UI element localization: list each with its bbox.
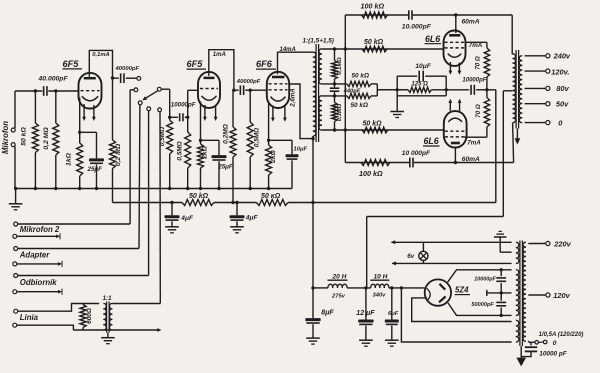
- svg-text:1:(1,5+1,5): 1:(1,5+1,5): [303, 37, 334, 44]
- wire heater line bottom: [392, 261, 512, 265]
- label 0,1MΩ up: [337, 57, 343, 75]
- svg-text:220v: 220v: [553, 240, 571, 249]
- V3 heater legs: [271, 106, 287, 122]
- wire B+ rail stages: [113, 202, 496, 204]
- svg-text:0,5MΩ: 0,5MΩ: [177, 141, 184, 160]
- resistor 2kΩ V3 cathode: [266, 145, 272, 189]
- svg-text:50 kΩ: 50 kΩ: [352, 72, 369, 79]
- resistor 600Ω line: [80, 304, 86, 331]
- svg-text:50000pF: 50000pF: [471, 302, 494, 308]
- choke 10H: [370, 273, 389, 298]
- V2 cathode arc: [202, 96, 217, 101]
- resistor 1kΩ V1 cathode: [77, 132, 83, 188]
- svg-text:50 kΩ: 50 kΩ: [364, 39, 384, 46]
- resistor 100kΩ bottom: [359, 160, 390, 179]
- V1 cathode arc: [82, 96, 98, 101]
- terminal Mikrofon2 a: [14, 222, 130, 226]
- T2 tap 80v: [525, 84, 570, 93]
- svg-text:6μF: 6μF: [388, 311, 399, 317]
- T3 primary winding: [523, 242, 526, 341]
- svg-text:100 kΩ: 100 kΩ: [359, 169, 383, 178]
- capacitor 40000pF V2 out: [234, 79, 261, 95]
- svg-text:20 H: 20 H: [332, 273, 347, 280]
- label 0,1MΩ dn: [337, 103, 343, 121]
- svg-text:Adapter: Adapter: [19, 250, 50, 259]
- svg-text:80v: 80v: [556, 84, 569, 93]
- svg-text:8μF: 8μF: [321, 310, 334, 317]
- svg-text:275v: 275v: [331, 294, 346, 300]
- tube V3 6F6: [267, 72, 289, 108]
- svg-text:70 Ω: 70 Ω: [475, 104, 482, 118]
- ground T3 core: [516, 346, 526, 366]
- capacitor 12μF: [356, 288, 375, 346]
- svg-text:2kΩ: 2kΩ: [270, 149, 277, 163]
- T2 primary lead bottom: [513, 123, 514, 163]
- wire contact2 to Mikrofon2 riser: [130, 90, 134, 224]
- T2 tap 120v: [525, 68, 570, 77]
- resistor 70Ω V5: [484, 90, 489, 137]
- T4 bottom rail: [73, 328, 161, 332]
- label 0,5MΩ a: [159, 127, 166, 146]
- V2 heater legs: [203, 105, 218, 121]
- wire grid V1: [15, 90, 79, 92]
- transformer T4 1:1 core: [107, 302, 110, 333]
- svg-text:240v: 240v: [553, 52, 571, 61]
- svg-text:60mA: 60mA: [462, 156, 480, 163]
- svg-text:6v: 6v: [407, 253, 414, 260]
- label 0,2MΩ plate: [115, 143, 122, 166]
- wire grid V3: [250, 89, 267, 91]
- tube V5 6L6: [444, 111, 467, 147]
- transformer T2 core: [516, 50, 519, 129]
- capacitor 10000pF screens: [446, 77, 487, 94]
- resistor 0,5MΩ grid V3: [247, 90, 253, 188]
- V4 plate bar: [449, 34, 460, 37]
- svg-text:10 000pF: 10 000pF: [402, 150, 431, 157]
- resistor 0,5MΩ grid a: [167, 120, 173, 189]
- svg-text:50 κΩ: 50 κΩ: [261, 193, 281, 200]
- tube V6 5Z4 envelope: [425, 279, 451, 305]
- wire 5Z4 filament 2: [412, 298, 512, 322]
- rail dots: [311, 286, 403, 289]
- resistor 50kΩ grid V4: [362, 39, 387, 52]
- switch pivot: [157, 87, 169, 91]
- svg-text:2kΩ: 2kΩ: [201, 145, 208, 159]
- svg-text:40000pF: 40000pF: [115, 66, 140, 72]
- svg-text:25μF: 25μF: [87, 166, 103, 173]
- svg-text:Linia: Linia: [20, 313, 39, 322]
- label 7mA V5: [467, 139, 481, 146]
- svg-text:70 Ω: 70 Ω: [475, 56, 482, 70]
- T1 primary winding: [313, 52, 316, 136]
- svg-text:50 kΩ: 50 kΩ: [21, 127, 28, 146]
- label 600Ω: [86, 308, 93, 324]
- wire HV bottom lead: [448, 303, 512, 316]
- label 0,5MΩ c: [253, 128, 260, 147]
- T3 primary bottom + fuse: [528, 340, 557, 347]
- capacitor 10000pF HV upper: [474, 270, 506, 293]
- wire feedback top: [345, 14, 512, 16]
- wire V2 cathode: [199, 102, 219, 145]
- V4 cathode legs: [449, 62, 462, 75]
- wire grid V2: [188, 90, 199, 117]
- label 2kΩ V2: [201, 145, 208, 159]
- wire secondary tap upper: [322, 83, 347, 85]
- T2 tap 0: [525, 118, 564, 127]
- transformer T1 core: [316, 44, 319, 142]
- label 0,1mA: [92, 52, 109, 58]
- resistor 0,2MΩ V2 plate load: [230, 90, 236, 202]
- V4 cathode arc: [448, 54, 461, 58]
- wire y95.8: [397, 95, 446, 97]
- tube V4 6L6: [444, 31, 466, 66]
- svg-text:10μF: 10μF: [294, 147, 308, 153]
- svg-text:1:1: 1:1: [103, 295, 113, 302]
- wire rectifier rail: [313, 287, 425, 289]
- svg-text:10000pF: 10000pF: [171, 101, 196, 108]
- resistor 50kΩ input: [32, 91, 38, 189]
- node HV dots: [500, 268, 503, 317]
- tube V2 6F5: [198, 72, 220, 108]
- T3 rectifier heater winding: [516, 320, 519, 342]
- svg-text:40000pF: 40000pF: [236, 79, 261, 85]
- T4 secondary: [109, 303, 112, 330]
- resistor 0,2MΩ V1 plate load: [110, 78, 116, 203]
- svg-text:120v: 120v: [553, 291, 570, 300]
- wire B+ vertical x313: [312, 139, 314, 288]
- V6 filament: [427, 288, 431, 301]
- svg-text:4μF: 4μF: [245, 214, 259, 221]
- svg-text:7mA: 7mA: [467, 139, 481, 146]
- label 6L6 V5: [423, 136, 440, 146]
- V3 plate bar: [272, 76, 285, 79]
- wire ground bus: [16, 188, 292, 190]
- wire B+ branch down: [366, 217, 368, 288]
- svg-text:1/0,5A (120/220): 1/0,5A (120/220): [539, 332, 584, 338]
- svg-text:6L6: 6L6: [425, 34, 440, 44]
- ground 125Ω: [390, 76, 404, 117]
- label Adapter: [19, 250, 50, 259]
- wire V2 plate loop: [209, 50, 234, 90]
- capacitor 10μF V3 cathode: [286, 140, 308, 188]
- terminal Odbiornik b: [13, 289, 62, 295]
- terminal Mikrofon2 b: [13, 233, 60, 239]
- tube V1 6F5: [79, 73, 102, 109]
- T3 HV winding: [516, 270, 519, 316]
- node taps: [333, 82, 336, 97]
- svg-text:4μF: 4μF: [180, 215, 194, 222]
- svg-text:10μF: 10μF: [415, 63, 431, 70]
- svg-text:50 kΩ: 50 kΩ: [351, 102, 368, 109]
- terminal Linia b: [13, 323, 74, 330]
- T4 primary: [103, 303, 106, 330]
- svg-text:Mikrofon: Mikrofon: [1, 121, 10, 154]
- svg-text:0,2 MΩ: 0,2 MΩ: [115, 143, 122, 166]
- capacitor 50000pF HV lower: [471, 293, 506, 316]
- label 5Z4: [455, 286, 470, 295]
- terminal Odbiornik a: [14, 274, 149, 278]
- T3 tap 120v: [528, 291, 570, 300]
- T2 primary lead top: [511, 15, 513, 54]
- T2 secondary winding: [519, 56, 522, 123]
- resistor 50kΩ phase b: [347, 93, 371, 109]
- svg-text:10 H: 10 H: [374, 273, 388, 280]
- input terminal Mikrofon (bottom): [11, 143, 15, 189]
- label 0,5MΩ b: [177, 141, 184, 160]
- T2 primary center tap: [503, 90, 512, 92]
- node grid V1 junctions: [34, 89, 58, 92]
- resistor 50kΩ decoupling 2: [257, 193, 289, 206]
- switch contact 3: [138, 101, 142, 249]
- svg-text:0,1MΩ: 0,1MΩ: [337, 57, 343, 75]
- T3 heater winding 6.3v: [516, 242, 519, 263]
- wire V1 cathode: [78, 98, 97, 135]
- V1 plate bar: [84, 77, 96, 80]
- svg-text:1kΩ: 1kΩ: [66, 152, 73, 166]
- svg-text:14mA: 14mA: [280, 47, 296, 53]
- resistor 0,2MΩ input: [53, 91, 59, 189]
- svg-text:Odbiornik: Odbiornik: [20, 278, 57, 287]
- svg-text:25μF: 25μF: [217, 164, 233, 171]
- label 70Ω V5: [475, 104, 482, 118]
- node V4 plate: [454, 13, 457, 16]
- resistor 50kΩ grid V5: [362, 121, 388, 133]
- V5 cathode legs: [448, 99, 461, 111]
- wire V1 plate loop: [89, 50, 112, 78]
- wire V5 screen: [464, 136, 487, 138]
- resistor 70Ω V4: [484, 48, 489, 90]
- capacitor 8μF: [305, 288, 334, 344]
- wire B+ center-tap rail: [367, 91, 504, 217]
- resistor 125Ω: [377, 81, 446, 92]
- choke 20H: [328, 273, 348, 299]
- capacitor 25μF V1 cathode: [87, 132, 105, 188]
- svg-text:6L6: 6L6: [424, 136, 439, 146]
- label Odbiornik: [20, 278, 57, 287]
- svg-text:60mA: 60mA: [462, 18, 480, 25]
- terminal Adapter b: [13, 261, 62, 267]
- wire V3 plate to T1: [278, 52, 313, 74]
- wire screens to B+: [487, 90, 496, 203]
- label 1mA: [213, 52, 226, 58]
- V2 plate bar: [204, 77, 215, 80]
- wire V4 screen: [465, 42, 487, 48]
- label 6F5 V2: [187, 59, 207, 69]
- wire V3 cathode: [267, 102, 292, 146]
- svg-text:12 μF: 12 μF: [356, 310, 375, 317]
- svg-text:0,1mA: 0,1mA: [92, 52, 109, 58]
- svg-text:40.000pF: 40.000pF: [38, 76, 69, 83]
- V4 dashes: [445, 42, 465, 48]
- wire HV top lead: [448, 270, 512, 282]
- node 125: [396, 88, 399, 91]
- label 14mA: [280, 47, 296, 53]
- wire V5 plate: [454, 148, 457, 165]
- rail junction dots: [170, 201, 314, 204]
- resistor 0,1MΩ lower: [332, 96, 338, 130]
- svg-text:0: 0: [553, 340, 557, 347]
- wire feedback vertical: [344, 15, 346, 163]
- wire switch output: [169, 89, 171, 120]
- svg-text:0,2 MΩ: 0,2 MΩ: [43, 127, 50, 150]
- V6 plates: [439, 284, 446, 303]
- T3 tap 220v: [528, 240, 571, 249]
- wire secondary tap lower: [322, 95, 347, 97]
- svg-text:Mikrofon 2: Mikrofon 2: [20, 225, 60, 234]
- label 60mA top: [462, 18, 480, 25]
- svg-text:10.000pF: 10.000pF: [402, 23, 432, 30]
- svg-text:6F5: 6F5: [63, 59, 80, 69]
- svg-text:0,2MΩ: 0,2MΩ: [223, 123, 230, 144]
- svg-text:1mA: 1mA: [213, 52, 226, 58]
- svg-text:2,6mA: 2,6mA: [290, 88, 297, 108]
- node grid V2: [186, 116, 189, 119]
- label 6L6 V4: [425, 34, 442, 44]
- ground heater center-tap: [494, 231, 512, 252]
- T2 tap 50v: [525, 100, 570, 109]
- node T1 primary bottom: [311, 137, 314, 140]
- label fuse: [539, 332, 584, 338]
- label Mikrofon: [1, 121, 10, 154]
- svg-text:100 kΩ: 100 kΩ: [361, 1, 385, 10]
- node dots y130: [333, 128, 347, 131]
- V3 cathode arc: [271, 97, 286, 102]
- wire cathode vertical: [445, 76, 448, 96]
- T4 top wire to switch: [112, 303, 160, 305]
- node dots y49: [333, 47, 347, 50]
- wire HV center tap: [487, 290, 512, 296]
- capacitor 40000pF V1 out: [113, 66, 140, 83]
- node V2 plate: [232, 89, 235, 92]
- terminal switch contact 1: [137, 77, 141, 81]
- wire phase bracket: [371, 84, 377, 96]
- label 2kΩ V3: [270, 149, 277, 163]
- label 0,2MΩ: [43, 127, 50, 150]
- T1 secondary upper: [319, 49, 322, 84]
- capacitor 440pF: [330, 84, 361, 96]
- T1 primary bottom lead: [312, 136, 314, 139]
- V2 grid dash: [200, 88, 218, 90]
- label 70Ω V4: [475, 56, 482, 70]
- svg-text:6F5: 6F5: [187, 59, 204, 69]
- label 1kΩ: [66, 152, 73, 166]
- svg-text:340v: 340v: [373, 293, 387, 299]
- label 60mA bottom: [462, 156, 480, 163]
- label 1:1: [103, 295, 113, 302]
- svg-text:0,5MΩ: 0,5MΩ: [253, 128, 260, 147]
- capacitor 4μF decoupling 1: [165, 203, 194, 233]
- svg-text:50v: 50v: [556, 100, 569, 109]
- terminal Linia a: [14, 304, 100, 314]
- svg-text:600Ω: 600Ω: [86, 308, 93, 324]
- svg-text:125 Ω: 125 Ω: [411, 81, 428, 87]
- node grid V3: [249, 89, 252, 92]
- wire V4 plate: [455, 15, 457, 33]
- svg-text:50 kΩ: 50 kΩ: [189, 193, 209, 200]
- node screens: [485, 88, 488, 91]
- T1 secondary lower: [319, 96, 322, 130]
- bus junction dots: [14, 187, 270, 190]
- V5 dashes: [445, 131, 466, 137]
- V3 grid dashes: [269, 84, 288, 90]
- capacitor 25μF V2 cathode: [212, 140, 233, 188]
- wire grid V5: [322, 129, 444, 131]
- capacitor 40.000pF input: [38, 76, 69, 96]
- label 1:(1,5+1,5): [303, 37, 334, 44]
- wire V3 screen: [289, 84, 313, 139]
- switch contact 2: [134, 88, 138, 92]
- input terminal Mikrofon (top): [11, 91, 15, 132]
- capacitor 10000pF coupling: [170, 101, 196, 121]
- label 6F6: [256, 59, 276, 69]
- resistor 100kΩ top: [361, 1, 388, 18]
- V1 heater legs: [82, 104, 96, 121]
- svg-text:0,1MΩ: 0,1MΩ: [337, 103, 343, 121]
- V1 grid dash: [81, 90, 100, 92]
- svg-text:50 kΩ: 50 kΩ: [363, 121, 383, 128]
- svg-text:5Z4: 5Z4: [455, 286, 469, 295]
- label 50kΩ: [21, 127, 28, 146]
- resistor 50kΩ decoupling 1: [182, 193, 214, 206]
- terminal Adapter a: [14, 247, 139, 251]
- T2 primary winding: [513, 54, 516, 123]
- svg-text:10000pF: 10000pF: [462, 77, 486, 83]
- node cap feed: [168, 116, 171, 119]
- svg-text:10000 pF: 10000 pF: [539, 350, 567, 357]
- capacitor 10000pF bottom: [402, 150, 431, 168]
- svg-text:10000pF: 10000pF: [474, 277, 496, 283]
- ground bus-left: [9, 189, 23, 210]
- wire feedback bottom: [345, 162, 513, 164]
- resistor 2kΩ V2 cathode: [198, 144, 204, 189]
- V5 cathode arc: [448, 118, 462, 122]
- wire phase out: [377, 89, 408, 91]
- capacitor 6μF: [385, 288, 399, 346]
- resistor 0,5MΩ grid b: [185, 117, 191, 188]
- label 2,6mA: [290, 88, 297, 108]
- label Linia: [20, 313, 39, 322]
- label 0,2MΩ V2: [223, 123, 230, 144]
- resistor 50kΩ phase a: [347, 72, 371, 86]
- transformer T3 core: [520, 241, 523, 347]
- label Mikrofon 2: [20, 225, 60, 234]
- svg-text:120v.: 120v.: [551, 68, 569, 77]
- ground T4: [101, 333, 115, 344]
- resistor 0,1MΩ upper: [332, 49, 338, 84]
- T2 tap 240v: [525, 52, 571, 61]
- T2 ground arrow: [515, 129, 521, 145]
- lamp 6v: [407, 242, 428, 263]
- label 6F5 V1: [63, 59, 83, 69]
- svg-text:6F6: 6F6: [256, 59, 273, 69]
- switch contact 5: [158, 108, 162, 304]
- capacitor 10000pF top: [402, 10, 432, 30]
- capacitor 10μF 6L6 cathodes: [397, 63, 446, 82]
- wire 5Z4 filament B+: [401, 288, 511, 342]
- switch contact 4: [147, 107, 151, 276]
- svg-text:0,5MΩ: 0,5MΩ: [159, 127, 166, 146]
- node V1 plate: [111, 76, 114, 79]
- V5 plate bar: [451, 142, 460, 145]
- wire grid V4: [322, 48, 444, 50]
- wire heater line top: [391, 240, 512, 244]
- capacitor 10000pF mains: [521, 342, 568, 357]
- label 7mA V4: [469, 42, 483, 49]
- switch arm: [142, 91, 157, 101]
- capacitor 4μF decoupling 2: [230, 203, 259, 233]
